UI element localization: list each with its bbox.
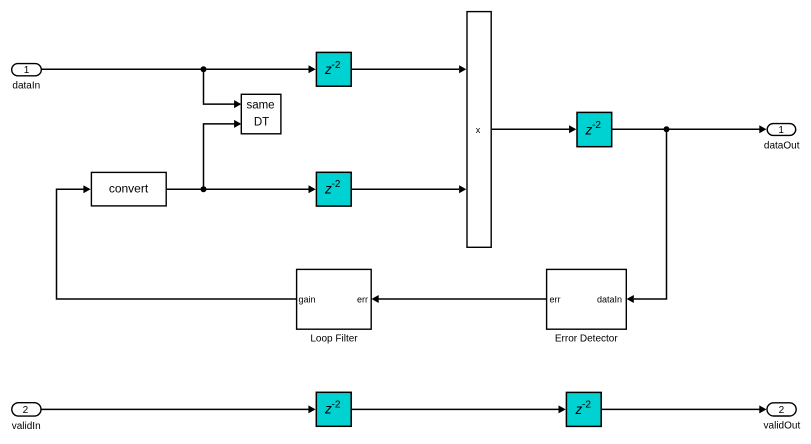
svg-text:-2: -2 [592,120,601,131]
wire Delay5 to Out2 [601,405,766,413]
block Product (x) [467,12,491,248]
svg-text:dataIn: dataIn [12,81,40,92]
svg-text:-2: -2 [332,60,341,71]
svg-text:-2: -2 [332,399,341,410]
delay block Delay4 z^-2 (bottom left) [316,392,351,426]
svg-text:DT: DT [254,116,269,128]
inport In2 (validIn) [12,403,41,432]
wire Product to Delay3 [492,125,576,133]
wire Loop Filter gain feedback to convert [57,185,297,299]
svg-text:err: err [550,295,561,305]
svg-text:gain: gain [299,295,316,305]
svg-text:same: same [246,99,274,111]
svg-text:Loop Filter: Loop Filter [310,334,358,345]
svg-text:validOut: validOut [764,421,801,432]
outport Out1 (dataOut) [764,124,800,152]
wire Delay4 to Delay5 [351,405,566,413]
block Loop Filter [297,269,372,344]
delay block Delay5 z^-2 (bottom right) [566,392,601,426]
svg-text:Error Detector: Error Detector [555,334,618,345]
svg-text:convert: convert [109,181,149,195]
block convert (data type conversion) [91,172,166,206]
svg-text:validIn: validIn [12,421,41,432]
wire convert to Delay2 [166,185,316,193]
delay block Delay1 z^-2 (top) [316,52,351,86]
delay block Delay2 z^-2 (middle left) [316,172,351,206]
wire junction down to Error Detector dataIn [627,129,667,303]
junction node on dataOut wire [664,126,670,132]
wire Delay2 to Product [351,185,466,193]
wire junction to sameDT input 2 [204,120,242,189]
wire Delay1 to Product [351,65,466,73]
svg-text:dataOut: dataOut [764,141,800,152]
svg-text:-2: -2 [582,400,591,411]
svg-text:dataIn: dataIn [597,295,622,305]
svg-text:1: 1 [778,125,784,136]
junction node on dataIn wire [201,66,207,72]
svg-text:1: 1 [24,65,30,76]
svg-text:-2: -2 [332,179,341,190]
delay block Delay3 z^-2 (middle right) [577,112,612,146]
svg-text:2: 2 [779,405,785,416]
wire In1 to Delay1 [42,65,316,73]
svg-text:2: 2 [23,405,29,416]
wire Delay3 to Out1 [612,125,767,133]
svg-text:err: err [357,295,368,305]
block sameDT (rate transition) [241,94,281,134]
outport Out2 (validOut) [764,403,801,432]
junction node on convert output wire [201,186,207,192]
wire In2 to Delay4 [41,405,316,413]
svg-text:x: x [476,125,481,135]
block Error Detector [547,269,627,344]
wire junction to sameDT input 1 [204,69,242,108]
wire Error Detector err to Loop Filter err [372,295,547,303]
inport In1 (dataIn) [12,64,42,92]
